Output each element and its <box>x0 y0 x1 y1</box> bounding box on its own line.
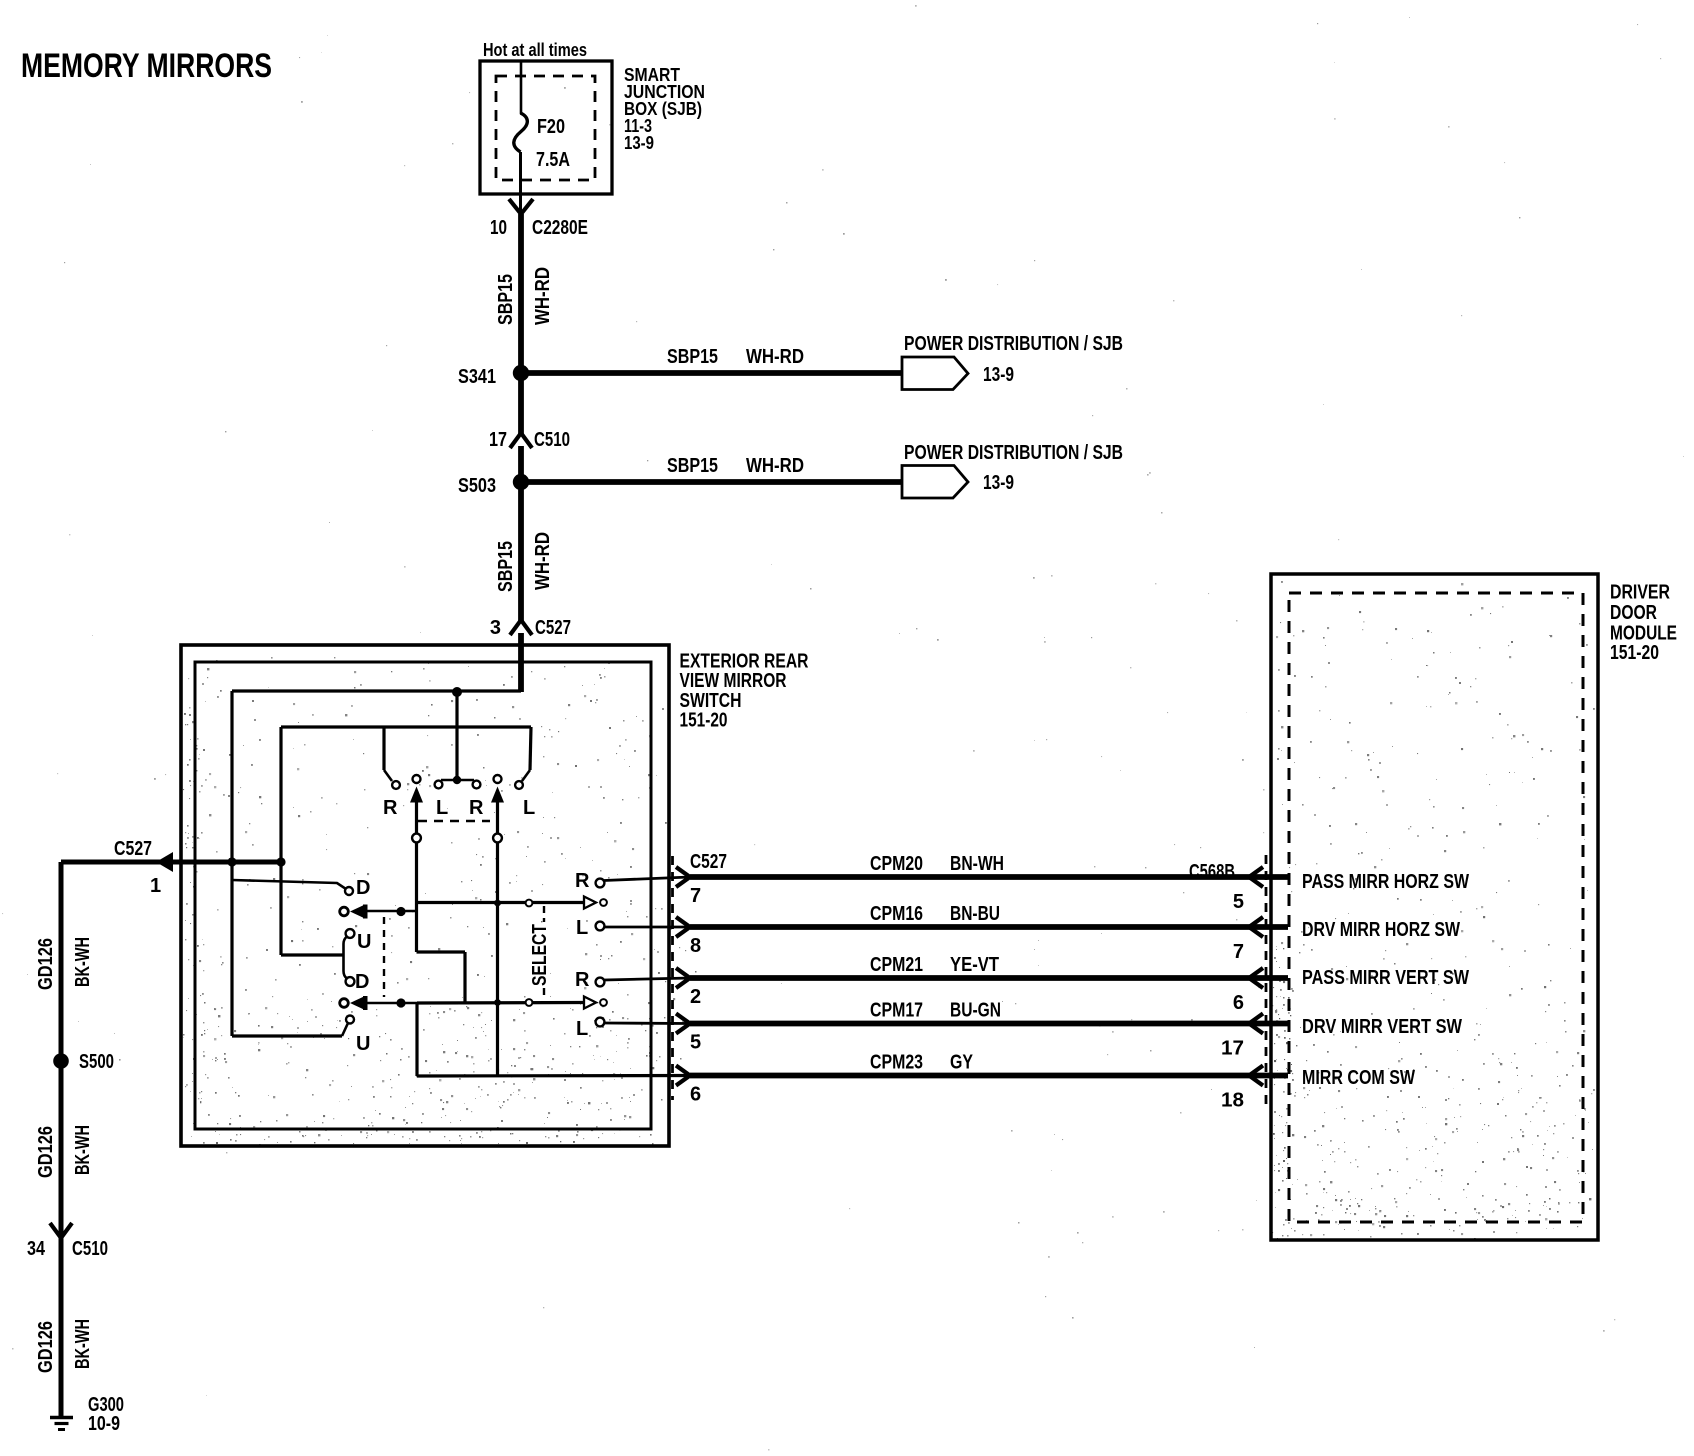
svg-text:WH-RD: WH-RD <box>532 532 554 590</box>
svg-text:6: 6 <box>690 1084 701 1106</box>
svg-text:17: 17 <box>489 429 507 451</box>
svg-text:7.5A: 7.5A <box>536 149 570 171</box>
svg-text:U: U <box>356 1033 370 1055</box>
svg-text:DOOR: DOOR <box>1610 602 1657 624</box>
svg-text:CPM21: CPM21 <box>870 954 923 976</box>
svg-text:151-20: 151-20 <box>680 710 728 732</box>
svg-text:C527: C527 <box>535 617 571 639</box>
svg-text:SBP15: SBP15 <box>667 346 718 368</box>
svg-text:PASS MIRR HORZ SW: PASS MIRR HORZ SW <box>1302 871 1469 893</box>
svg-text:DRV MIRR HORZ SW: DRV MIRR HORZ SW <box>1302 919 1460 941</box>
svg-text:R: R <box>469 797 484 819</box>
svg-text:WH-RD: WH-RD <box>746 346 804 368</box>
svg-text:PASS MIRR VERT SW: PASS MIRR VERT SW <box>1302 967 1469 989</box>
svg-text:D: D <box>356 877 370 899</box>
svg-text:18: 18 <box>1221 1090 1244 1112</box>
svg-text:8: 8 <box>690 935 701 957</box>
svg-text:GY: GY <box>950 1052 974 1074</box>
svg-text:SELECT: SELECT <box>529 924 551 986</box>
svg-text:D: D <box>355 971 369 993</box>
svg-text:S503: S503 <box>458 475 496 497</box>
svg-text:L: L <box>523 797 535 819</box>
svg-text:S500: S500 <box>79 1051 114 1073</box>
svg-text:DRIVER: DRIVER <box>1610 582 1670 604</box>
svg-text:C2280E: C2280E <box>532 217 588 239</box>
svg-text:10-9: 10-9 <box>88 1413 120 1435</box>
svg-text:GD126: GD126 <box>35 1126 57 1178</box>
svg-text:POWER DISTRIBUTION / SJB: POWER DISTRIBUTION / SJB <box>904 333 1123 355</box>
svg-text:CPM23: CPM23 <box>870 1052 923 1074</box>
svg-text:1: 1 <box>150 875 161 897</box>
svg-text:5: 5 <box>1233 891 1244 913</box>
svg-text:3: 3 <box>490 617 501 639</box>
svg-text:Hot at all times: Hot at all times <box>483 40 587 60</box>
svg-text:10: 10 <box>490 217 507 239</box>
svg-text:VIEW MIRROR: VIEW MIRROR <box>680 670 787 692</box>
svg-text:L: L <box>436 797 448 819</box>
svg-text:SBP15: SBP15 <box>667 455 718 477</box>
svg-text:BN-BU: BN-BU <box>950 903 1000 925</box>
svg-text:POWER DISTRIBUTION / SJB: POWER DISTRIBUTION / SJB <box>904 442 1123 464</box>
svg-text:13-9: 13-9 <box>624 133 654 153</box>
svg-text:C568B: C568B <box>1189 861 1235 883</box>
svg-text:5: 5 <box>690 1032 701 1054</box>
svg-text:C527: C527 <box>690 851 727 873</box>
svg-text:CPM17: CPM17 <box>870 1000 923 1022</box>
svg-text:13-9: 13-9 <box>983 364 1014 386</box>
svg-text:L: L <box>576 1018 588 1040</box>
svg-text:C510: C510 <box>72 1238 108 1260</box>
svg-text:MIRR COM SW: MIRR COM SW <box>1302 1067 1415 1089</box>
svg-text:WH-RD: WH-RD <box>532 267 554 325</box>
svg-text:MEMORY MIRRORS: MEMORY MIRRORS <box>21 47 272 85</box>
svg-text:C510: C510 <box>534 429 570 451</box>
svg-text:R: R <box>575 969 590 991</box>
svg-text:S341: S341 <box>458 366 496 388</box>
svg-text:L: L <box>576 917 588 939</box>
svg-text:13-9: 13-9 <box>983 472 1014 494</box>
svg-text:17: 17 <box>1221 1038 1244 1060</box>
svg-text:R: R <box>575 870 590 892</box>
svg-text:GD126: GD126 <box>35 938 57 990</box>
svg-text:6: 6 <box>1233 992 1244 1014</box>
svg-text:DRV MIRR VERT SW: DRV MIRR VERT SW <box>1302 1016 1462 1038</box>
svg-text:34: 34 <box>27 1238 46 1260</box>
svg-text:YE-VT: YE-VT <box>950 954 999 976</box>
svg-text:BK-WH: BK-WH <box>72 937 94 987</box>
svg-text:SBP15: SBP15 <box>495 274 517 325</box>
svg-text:BN-WH: BN-WH <box>950 853 1004 875</box>
svg-text:F20: F20 <box>537 116 565 138</box>
svg-text:R: R <box>383 797 398 819</box>
svg-text:7: 7 <box>690 885 701 907</box>
svg-text:7: 7 <box>1233 941 1244 963</box>
svg-text:CPM20: CPM20 <box>870 853 923 875</box>
svg-text:C527: C527 <box>114 838 152 860</box>
svg-text:BU-GN: BU-GN <box>950 1000 1001 1022</box>
svg-text:2: 2 <box>690 986 701 1008</box>
svg-text:WH-RD: WH-RD <box>746 455 804 477</box>
svg-text:U: U <box>357 931 371 953</box>
svg-text:151-20: 151-20 <box>1610 642 1659 664</box>
svg-text:BK-WH: BK-WH <box>72 1125 94 1175</box>
svg-text:BK-WH: BK-WH <box>72 1319 94 1369</box>
svg-text:CPM16: CPM16 <box>870 903 923 925</box>
svg-text:GD126: GD126 <box>35 1321 57 1373</box>
svg-text:SBP15: SBP15 <box>495 541 517 592</box>
